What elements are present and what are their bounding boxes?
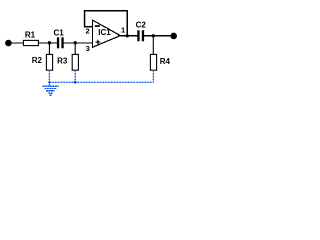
svg-text:R2: R2 <box>32 56 43 65</box>
op-amp plus sign <box>96 40 101 45</box>
svg-text:1: 1 <box>121 25 126 34</box>
node junction R3 tap <box>74 41 77 44</box>
wire pin 2 stub <box>84 26 93 28</box>
wire R4 stem (black) <box>152 36 154 55</box>
node junction R4 tap <box>152 34 155 37</box>
svg-text:R4: R4 <box>160 57 171 66</box>
node junction feedback/output <box>126 34 129 37</box>
capacitor C1 <box>57 37 64 48</box>
op-amp IC1 triangle <box>93 20 121 47</box>
wire R3 stem (black) <box>74 43 76 55</box>
wire R2 to ground rail (blue, selected net) <box>48 70 50 86</box>
wire R2 stem (black) <box>48 43 50 55</box>
svg-text:IC1: IC1 <box>98 28 111 37</box>
node junction R3/rail (blue) <box>74 81 77 84</box>
svg-text:C2: C2 <box>136 20 147 29</box>
wire input terminal to R1 <box>12 42 24 44</box>
input terminal (left pad) <box>5 40 12 47</box>
wire R1 to C1 <box>38 42 57 44</box>
resistor R2 <box>46 54 52 70</box>
node junction R2/rail (blue) <box>48 81 50 83</box>
wire feedback top horizontal <box>84 10 128 12</box>
op-amp minus sign <box>95 25 100 27</box>
wire ground rail horizontal (blue) <box>49 81 153 83</box>
wire feedback right vertical <box>126 11 128 36</box>
wire R4 to ground rail (blue) <box>152 70 154 82</box>
svg-text:C1: C1 <box>53 29 64 38</box>
wire C1 to op-amp pin 3 <box>64 42 93 44</box>
wire R3 to ground rail (blue) <box>74 70 76 82</box>
resistor R1 <box>23 40 38 45</box>
svg-text:R3: R3 <box>57 56 68 65</box>
node junction R2 tap <box>48 41 51 44</box>
resistor R4 <box>150 54 156 70</box>
svg-text:R1: R1 <box>25 30 36 39</box>
wire op-amp output to C2 <box>118 35 138 37</box>
output terminal (right pad) <box>170 33 177 40</box>
wire feedback left vertical <box>84 10 86 27</box>
wire C2 to output terminal <box>144 35 171 37</box>
ground symbol <box>42 86 58 95</box>
resistor R3 <box>72 54 78 70</box>
capacitor C2 <box>137 30 144 41</box>
svg-text:3: 3 <box>86 44 90 53</box>
svg-text:2: 2 <box>85 26 89 35</box>
